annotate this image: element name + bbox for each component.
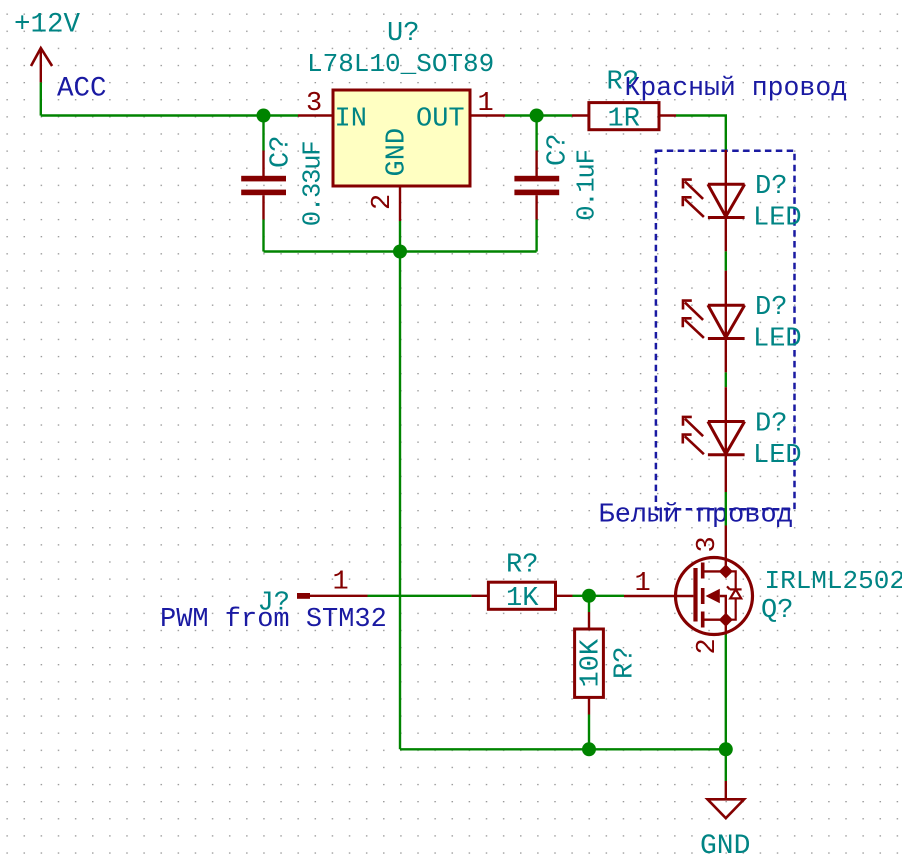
regulator U1 L78L10_SOT89 body [333, 90, 470, 186]
LED D1 [683, 150, 745, 251]
resistor R3 10K [575, 612, 604, 715]
wire U1 GND down [399, 221, 401, 252]
svg-text:L78L10_SOT89: L78L10_SOT89 [307, 49, 494, 79]
svg-text:ACC: ACC [57, 74, 107, 105]
svg-text:GND: GND [700, 831, 750, 860]
label Q1 reference Q? [761, 596, 793, 626]
label R3 value 10K [577, 638, 607, 687]
label R3 reference R? [611, 647, 641, 679]
svg-text:0.33uF: 0.33uF [299, 142, 328, 227]
wire J1 to R2 [368, 595, 472, 597]
wire C1 top [262, 116, 264, 151]
wire Q1 source down [725, 635, 727, 750]
svg-text:+12V: +12V [14, 10, 81, 41]
wire bottom gnd segment [264, 250, 537, 252]
label D2 value LED [753, 325, 802, 355]
svg-text:0.1uF: 0.1uF [573, 150, 602, 221]
wire GND long vertical [399, 252, 401, 750]
wire OUT to junction [505, 114, 572, 116]
svg-text:U?: U? [387, 19, 419, 49]
LED D2 [683, 271, 745, 373]
label U1 reference U? [387, 19, 419, 49]
wire D1 to D2 [725, 251, 727, 270]
svg-text:Q?: Q? [761, 596, 793, 626]
wire bottom rail [400, 748, 726, 750]
svg-text:GND: GND [383, 128, 413, 177]
label Красный провод [625, 73, 848, 103]
label C1 value 0.33uF [299, 142, 328, 227]
wire C1 bottom [262, 220, 264, 252]
svg-text:1R: 1R [608, 105, 640, 135]
svg-text:1K: 1K [506, 584, 539, 614]
transistor Q1 IRLML2502 [676, 526, 753, 635]
wire R3 to bottom rail [588, 715, 590, 750]
wire junction to R3 [588, 596, 590, 612]
wire ACC rail [41, 114, 298, 116]
svg-text:Красный провод: Красный провод [625, 73, 848, 103]
label D2 reference D? [755, 293, 787, 323]
wire C2 bottom [535, 220, 537, 252]
capacitor C1 0.33uF [241, 151, 286, 220]
svg-text:2: 2 [368, 194, 398, 210]
pin 3 IN of U1 [298, 89, 333, 119]
junction gate node [582, 589, 596, 603]
connector J1 [297, 568, 368, 599]
pin name IN [335, 105, 367, 135]
svg-text:IN: IN [335, 105, 367, 135]
svg-text:Белый провод: Белый провод [599, 501, 793, 531]
svg-text:LED: LED [753, 204, 802, 234]
svg-text:C?: C? [267, 136, 297, 168]
resistor R2 1K [471, 582, 572, 609]
wire D2 to D3 [725, 372, 727, 387]
svg-text:3: 3 [693, 536, 723, 552]
LED D3 [683, 387, 745, 492]
label D1 value LED [753, 204, 802, 234]
wire to GND symbol [725, 749, 727, 781]
label D1 reference D? [755, 172, 787, 202]
svg-text:R?: R? [506, 551, 538, 581]
label C2 value 0.1uF [573, 150, 602, 221]
label R1 value 1R [608, 105, 640, 135]
svg-text:D?: D? [755, 172, 787, 202]
label GND net [700, 831, 750, 860]
label Белый провод [599, 501, 793, 531]
ground symbol [708, 781, 745, 818]
junction at C1 top [257, 109, 271, 123]
pin 1 OUT of U1 [470, 89, 505, 119]
label C1 reference C? [267, 136, 297, 168]
svg-text:C?: C? [544, 134, 574, 166]
svg-text:PWM from STM32: PWM from STM32 [160, 605, 387, 635]
pin 2 number of Q1 [693, 638, 723, 654]
wire C2 top [535, 116, 537, 151]
svg-text:1: 1 [635, 569, 651, 599]
svg-text:1: 1 [478, 89, 494, 119]
pin 3 number of Q1 [693, 536, 723, 552]
label C2 reference C? [544, 134, 574, 166]
resistor R1 1R [572, 103, 676, 130]
label Q1 value IRLML2502 [765, 566, 902, 596]
junction at C2 top [530, 109, 544, 123]
dashed box around LEDs [656, 151, 795, 510]
pin name GND [383, 128, 413, 177]
svg-text:IRLML2502: IRLML2502 [765, 566, 902, 596]
label J1 reference J? [258, 589, 290, 619]
label R2 reference R? [506, 551, 538, 581]
label D3 value LED [753, 441, 802, 471]
junction R3 bottom [582, 742, 596, 756]
power symbol +12V [14, 10, 81, 83]
svg-text:1: 1 [333, 568, 349, 598]
svg-text:D?: D? [755, 410, 787, 440]
label R2 value 1K [506, 584, 539, 614]
wire +12V vertical [40, 82, 42, 115]
svg-text:10K: 10K [577, 638, 607, 687]
label R1 reference R? [607, 67, 639, 97]
svg-text:R?: R? [611, 647, 641, 679]
capacitor C2 0.1uF [514, 151, 559, 220]
svg-text:LED: LED [753, 441, 802, 471]
svg-text:LED: LED [753, 325, 802, 355]
wire R2 to gate junction [573, 595, 625, 597]
junction source bottom [719, 742, 733, 756]
wire D3 to Q1 drain [725, 492, 727, 526]
label PWM from STM32 [160, 605, 387, 635]
svg-text:2: 2 [693, 638, 723, 654]
svg-text:OUT: OUT [416, 105, 465, 135]
label ACC [57, 74, 107, 105]
pin 1 of Q1 gate [624, 569, 676, 599]
pin 2 GND of U1 [368, 186, 400, 221]
pin name OUT [416, 105, 465, 135]
svg-text:3: 3 [306, 89, 322, 119]
junction under regulator [393, 245, 407, 259]
label D3 reference D? [755, 410, 787, 440]
wire R1 to LED chain corner [676, 116, 726, 151]
svg-text:D?: D? [755, 293, 787, 323]
label U1 value L78L10_SOT89 [307, 49, 494, 79]
